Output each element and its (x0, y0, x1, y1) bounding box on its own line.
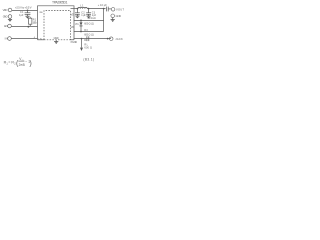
svg-text:R3: R3 (84, 29, 88, 32)
wire OUT+ pin to filter (71, 8, 79, 10)
capacitor C5 series (87, 36, 89, 41)
svg-text:+ 10 μF: + 10 μF (98, 3, 107, 7)
svg-text:1 μF: 1 μF (81, 14, 86, 17)
svg-text:L1: L1 (80, 4, 84, 8)
ground (IC bottom) (54, 40, 58, 44)
svg-text:VOUT: VOUT (116, 8, 124, 12)
node lower rail junction (80, 31, 82, 33)
svg-text:600 Ω (1): 600 Ω (1) (84, 34, 94, 37)
svg-text:PGND: PGND (71, 41, 78, 44)
wire OUT- pin row (74, 19, 104, 21)
diode D1 (80, 20, 83, 31)
wire after L1 (87, 8, 105, 10)
wire IN line (12, 38, 38, 40)
svg-text:VDD: VDD (3, 8, 8, 12)
svg-text:IN: IN (39, 38, 42, 40)
wire EN line (11, 25, 37, 27)
node output junction (103, 8, 105, 10)
svg-text:VDD: VDD (39, 12, 43, 14)
svg-text:GND: GND (54, 37, 59, 40)
capacitor C1 (25, 10, 31, 16)
svg-text:(B3.1): (B3.1) (83, 58, 94, 62)
svg-text:GND: GND (116, 14, 122, 18)
inductor L1 (78, 7, 87, 8)
node diode junction top (80, 20, 82, 22)
svg-text:VO–: VO– (75, 23, 80, 26)
node VDD junction (27, 10, 29, 12)
node EN junction (28, 26, 30, 28)
svg-text:600 Ω (1): 600 Ω (1) (84, 23, 94, 26)
ground (right GND terminal) (111, 18, 115, 22)
capacitor C4 output coupling (106, 7, 111, 12)
terminal GND right (111, 14, 115, 18)
ground (C1) (25, 16, 29, 18)
terminal VOUT (111, 8, 115, 12)
svg-text:JACK: JACK (115, 37, 123, 41)
capacitor C2 (75, 9, 80, 16)
svg-text:IN: IN (5, 37, 8, 41)
wire lower return rail (74, 31, 104, 33)
svg-text:+2.5 V to +5.5 V: +2.5 V to +5.5 V (15, 5, 32, 9)
load arrow RL (80, 39, 83, 51)
capacitor C3 (86, 9, 91, 16)
svg-text:D1: D1 (84, 38, 88, 42)
terminal GND (8, 15, 12, 19)
svg-text:EN: EN (4, 24, 7, 28)
op-amp U1 internal dashed block (44, 11, 71, 40)
node load branch junction (81, 38, 83, 40)
svg-text:TPA2005D1: TPA2005D1 (52, 1, 68, 5)
svg-text:GND: GND (3, 15, 8, 19)
wire feedback drop (103, 9, 105, 32)
terminal IN (8, 37, 12, 41)
node filter cap C3 junction (88, 8, 90, 10)
terminal VDD (8, 8, 12, 12)
svg-text:): ) (29, 58, 31, 67)
wire bottom output line (74, 38, 111, 40)
svg-text:1 μF: 1 μF (19, 14, 24, 17)
formula fraction bar (18, 60, 24, 62)
ground (C2) (75, 16, 79, 18)
svg-text:2πB: 2πB (19, 63, 25, 67)
ground (GND terminal) (8, 18, 12, 21)
ground (C3) (87, 16, 91, 18)
svg-text:VO: VO (71, 13, 74, 16)
terminal JACK (109, 37, 113, 41)
svg-text:600 Ω: 600 Ω (84, 47, 92, 50)
op-amp U1 TPA2005D1 outer package box (38, 6, 75, 40)
svg-text:VO: VO (71, 26, 74, 29)
svg-text:=: = (8, 60, 10, 64)
resistor R1 pull-up (29, 17, 32, 27)
terminal EN (8, 24, 12, 28)
svg-text:R2 1 kΩ: R2 1 kΩ (88, 17, 96, 20)
formula Po (4, 57, 32, 67)
node filter cap C2 junction (77, 8, 79, 10)
node jack junction (107, 38, 109, 40)
wire VDD input rail (12, 9, 38, 11)
